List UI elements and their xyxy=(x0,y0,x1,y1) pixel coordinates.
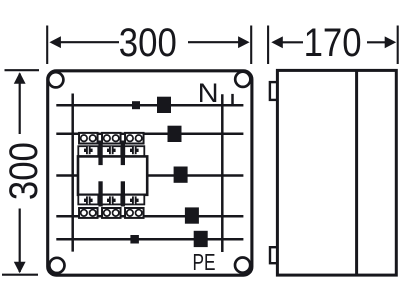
svg-text:300: 300 xyxy=(2,142,46,200)
svg-text:PE: PE xyxy=(193,249,216,275)
svg-text:N: N xyxy=(198,78,219,108)
svg-text:170: 170 xyxy=(304,21,362,65)
svg-text:300: 300 xyxy=(119,21,177,65)
